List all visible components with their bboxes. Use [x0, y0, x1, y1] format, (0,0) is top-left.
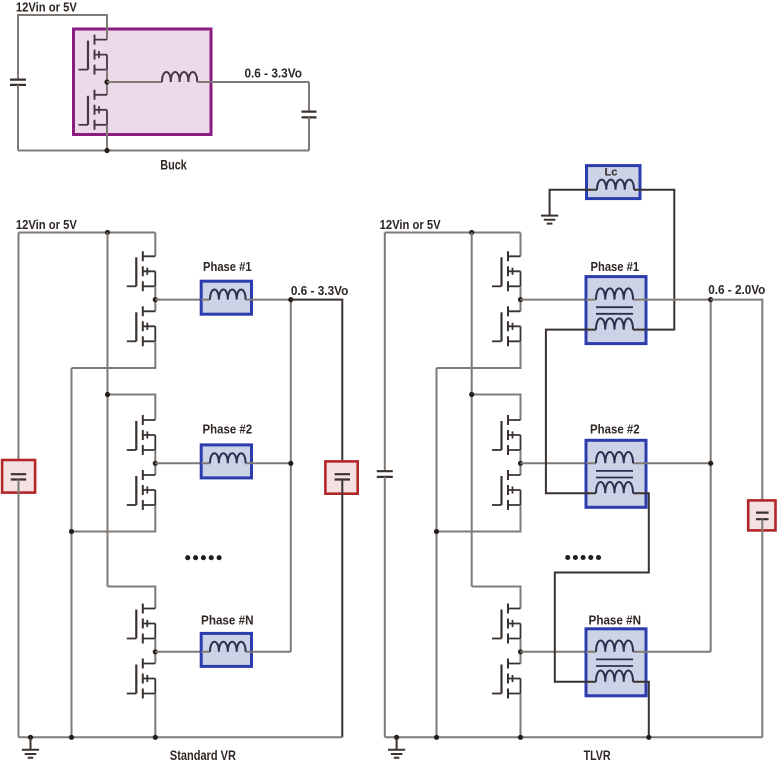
- transistor Q8b TLVR phase3 low-side: [492, 659, 521, 699]
- ground Lc: [541, 216, 558, 224]
- wire TLVR phase3 secondary feedthrough: [586, 681, 646, 683]
- inductor L1 buck: [162, 72, 197, 82]
- svg-text:12Vin or 5V: 12Vin or 5V: [16, 217, 77, 232]
- wire TLVR secondary phN to ground bus: [646, 682, 649, 738]
- svg-text:12Vin or 5V: 12Vin or 5V: [380, 217, 441, 232]
- wire std phase3 drain feed: [108, 587, 156, 609]
- node std top rail tap: [105, 230, 110, 235]
- converter box U1 (buck power stage): [74, 29, 212, 135]
- node TLVR phase3: [518, 649, 523, 654]
- node TLVR ground tap: [394, 735, 399, 740]
- svg-text:Phase #2: Phase #2: [203, 422, 253, 436]
- node std phase2: [153, 461, 158, 466]
- wire TLVR phase3 drain feed: [472, 587, 521, 609]
- wire std ground bus: [19, 736, 343, 738]
- core lines TLVR phase1: [596, 307, 633, 314]
- svg-text:12Vin or 5V: 12Vin or 5V: [16, 0, 77, 14]
- ground std: [22, 750, 39, 758]
- wire TLVR phase2 primary output: [646, 462, 711, 464]
- wire TLVR output to cap branch: [711, 300, 763, 513]
- wire std phase1 output: [252, 299, 291, 301]
- wire TLVR top rail: [385, 232, 521, 234]
- node std output bus top: [288, 297, 293, 302]
- output cap box TLVR (red): [748, 500, 775, 530]
- svg-text:Standard VR: Standard VR: [170, 748, 236, 763]
- wire std phase2 mid link: [154, 450, 156, 475]
- transistor Q7b TLVR phase2 low-side: [492, 470, 521, 510]
- svg-text:Phase #1: Phase #1: [203, 260, 252, 274]
- ellipsis dots TLVR: [565, 555, 570, 560]
- node TLVR rail tap phase2: [469, 392, 474, 397]
- inductor TLVR phase3 primary: [596, 641, 633, 652]
- output cap box std (red): [325, 461, 357, 493]
- node TLVR secondary ground: [646, 735, 651, 740]
- svg-text:TLVR: TLVR: [584, 748, 611, 763]
- wire TLVR phaseN source to ground bus: [520, 694, 522, 738]
- transistor Q3a std phase1 high-side: [127, 251, 156, 291]
- wire buck phase to inductor: [107, 81, 162, 83]
- svg-text:Phase #1: Phase #1: [591, 260, 640, 274]
- wire TLVR phase2 mid link: [520, 450, 522, 475]
- ellipsis dots std: [185, 555, 190, 560]
- wire std phase3 output: [252, 651, 291, 653]
- wire TLVR phase1 primary feedthrough: [586, 299, 646, 301]
- svg-text:0.6 - 3.3Vo: 0.6 - 3.3Vo: [291, 283, 349, 298]
- wire buck output rail upper: [308, 82, 310, 112]
- wire std phase2 output: [252, 462, 291, 464]
- wire std phase2 source return: [72, 505, 156, 532]
- transistor Q7a TLVR phase2 high-side: [492, 415, 521, 455]
- node TLVR return rail ground: [434, 735, 439, 740]
- node TLVR output bus top: [708, 297, 713, 302]
- wire std phase1 source return: [72, 341, 156, 368]
- wire TLVR secondary link ph2-phN: [555, 493, 649, 682]
- wire TLVR phase3 node to box: [521, 651, 587, 653]
- node TLVR phaseN source ground: [518, 735, 523, 740]
- node std output bus phase2: [288, 461, 293, 466]
- transistor Q3b std phase1 low-side: [127, 306, 156, 346]
- transistor Q8a TLVR phase3 high-side: [492, 604, 521, 644]
- wire buck input top and left rail: [18, 15, 107, 80]
- svg-text:Lc: Lc: [605, 167, 618, 179]
- node std phase1: [153, 297, 158, 302]
- wire std phase2 drain feed: [108, 395, 156, 421]
- input cap box std (red): [2, 460, 35, 493]
- inductor TLVR phase3 secondary: [596, 671, 633, 682]
- node std phaseN source ground: [153, 735, 158, 740]
- wire TLVR gate return rail: [436, 368, 438, 737]
- wire TLVR phase1 drain lead: [520, 233, 522, 257]
- capacitor C2 buck output: [302, 112, 317, 118]
- wire std phase1 box feedthrough: [201, 299, 251, 301]
- wire TLVR left rail upper: [384, 233, 386, 472]
- wire Q1 drain lead: [106, 14, 108, 40]
- transistor Q5a std phase3 high-side: [127, 604, 156, 644]
- node TLVR return tap: [434, 529, 439, 534]
- wire std phase3 mid link: [154, 639, 156, 664]
- inductor Lc coil: [597, 180, 634, 190]
- capacitor C4 std output: [335, 474, 350, 479]
- wire std phase3 box feedthrough: [201, 651, 251, 653]
- svg-text:Buck: Buck: [160, 157, 187, 172]
- node std rail tap phase2: [105, 392, 110, 397]
- wire TLVR phase2 primary feedthrough: [586, 462, 646, 464]
- node std phase3: [153, 649, 158, 654]
- capacitor C5 TLVR input: [377, 471, 393, 477]
- inductor TLVR phase2 secondary: [596, 482, 633, 493]
- wire TLVR main rail: [471, 233, 473, 587]
- transistor Q6a TLVR phase1 high-side: [492, 251, 521, 291]
- node buck return junction: [104, 148, 109, 153]
- wire std phase2 box feedthrough: [201, 462, 251, 464]
- ground TLVR: [388, 750, 405, 758]
- wire TLVR ground stem: [396, 737, 398, 750]
- phase box std 3: [201, 633, 251, 666]
- wire std gate return rail: [71, 368, 73, 737]
- wire std ground stem: [30, 737, 32, 750]
- node TLVR phase1: [518, 297, 523, 302]
- phase box TLVR 2 (coupled inductor): [586, 440, 646, 507]
- wire TLVR output bus: [710, 300, 712, 652]
- wire TLVR phase2 secondary feedthrough: [586, 492, 646, 494]
- wire buck output rail lower: [308, 117, 310, 150]
- wire std phaseN source to ground bus: [154, 694, 156, 738]
- node buck phase: [104, 79, 109, 84]
- wire std top rail: [19, 232, 156, 234]
- wire Lc left to ground: [550, 190, 587, 216]
- wire TLVR phase2 node to box: [521, 462, 587, 464]
- wire TLVR phase1 source return: [437, 341, 521, 368]
- phase box TLVR 1 (coupled inductor): [586, 277, 646, 344]
- wire std main rail: [107, 233, 109, 587]
- transistor Q1 buck high-side: [79, 35, 108, 75]
- inductor L std phase2: [210, 453, 246, 463]
- wire std left rail upper: [18, 233, 20, 475]
- wire std output cap to ground bus: [341, 480, 343, 738]
- svg-text:Phase #2: Phase #2: [590, 422, 640, 436]
- wire std phase1 node to box: [155, 299, 201, 301]
- Lc box (tuning inductor): [587, 166, 641, 199]
- wire TLVR phase1 primary output: [646, 299, 711, 301]
- svg-text:0.6 - 3.3Vo: 0.6 - 3.3Vo: [244, 66, 302, 81]
- wire TLVR phase2 drain feed: [472, 395, 521, 421]
- transistor Q6b TLVR phase1 low-side: [492, 306, 521, 346]
- inductor L std phase3: [210, 642, 246, 652]
- wire std phase2 node to box: [155, 462, 201, 464]
- capacitor C1 buck input: [10, 80, 26, 85]
- wire TLVR phase1 mid link: [520, 286, 522, 311]
- wire TLVR phase2 source return: [437, 505, 521, 532]
- wire TLVR phase1 node to box: [521, 299, 587, 301]
- capacitor C3 std input: [11, 474, 26, 479]
- transistor Q5b std phase3 low-side: [127, 659, 156, 699]
- capacitor C6 TLVR output: [756, 513, 769, 520]
- node std return tap: [69, 529, 74, 534]
- transistor Q4a std phase2 high-side: [127, 415, 156, 455]
- inductor TLVR phase2 primary: [596, 452, 633, 463]
- wire TLVR secondary link ph1-ph2: [546, 330, 586, 494]
- wire Lc right to phase1 secondary: [640, 190, 674, 330]
- inductor TLVR phase1 secondary: [596, 318, 633, 329]
- wire std phase1 mid link: [154, 286, 156, 311]
- core lines TLVR phase2: [596, 471, 633, 478]
- wire TLVR output cap to ground bus: [761, 519, 763, 737]
- wire std left rail lower: [18, 480, 20, 738]
- wire Q1 source to Q2 drain: [106, 70, 108, 95]
- wire buck left rail lower: [17, 85, 19, 151]
- wire std phase3 node to box: [155, 651, 201, 653]
- node std ground tap: [28, 735, 33, 740]
- core lines TLVR phase3: [596, 659, 633, 666]
- wire std phase1 drain lead: [154, 233, 156, 257]
- transistor Q2 buck low-side: [79, 90, 108, 130]
- svg-text:0.6 - 2.0Vo: 0.6 - 2.0Vo: [708, 282, 765, 297]
- wire TLVR phase3 mid link: [520, 639, 522, 664]
- wire TLVR phase3 primary feedthrough: [586, 651, 646, 653]
- wire TLVR phase3 primary output: [646, 651, 711, 653]
- phase box std 1: [201, 281, 251, 314]
- node TLVR output bus phase2: [708, 461, 713, 466]
- wire TLVR left rail lower: [384, 477, 386, 737]
- inductor L std phase1: [210, 290, 246, 300]
- wire TLVR ground bus: [385, 736, 763, 738]
- phase box TLVR 3 (coupled inductor): [586, 629, 646, 696]
- node std return rail ground: [69, 735, 74, 740]
- svg-text:Phase #N: Phase #N: [201, 613, 254, 627]
- wire Q2 source lead: [106, 125, 108, 151]
- wire buck inductor to output: [197, 81, 309, 83]
- transistor Q4b std phase2 low-side: [127, 470, 156, 510]
- svg-text:Phase #N: Phase #N: [589, 613, 642, 627]
- wire std output to cap branch: [291, 300, 343, 475]
- wire Lc box feedthrough: [587, 189, 641, 191]
- wire std output bus: [290, 300, 292, 652]
- phase box std 2: [201, 445, 251, 478]
- node TLVR phase2: [518, 461, 523, 466]
- node TLVR top rail tap: [469, 230, 474, 235]
- inductor TLVR phase1 primary: [596, 288, 633, 299]
- wire TLVR phase1 secondary feedthrough: [586, 329, 646, 331]
- wire buck bottom return: [18, 150, 309, 152]
